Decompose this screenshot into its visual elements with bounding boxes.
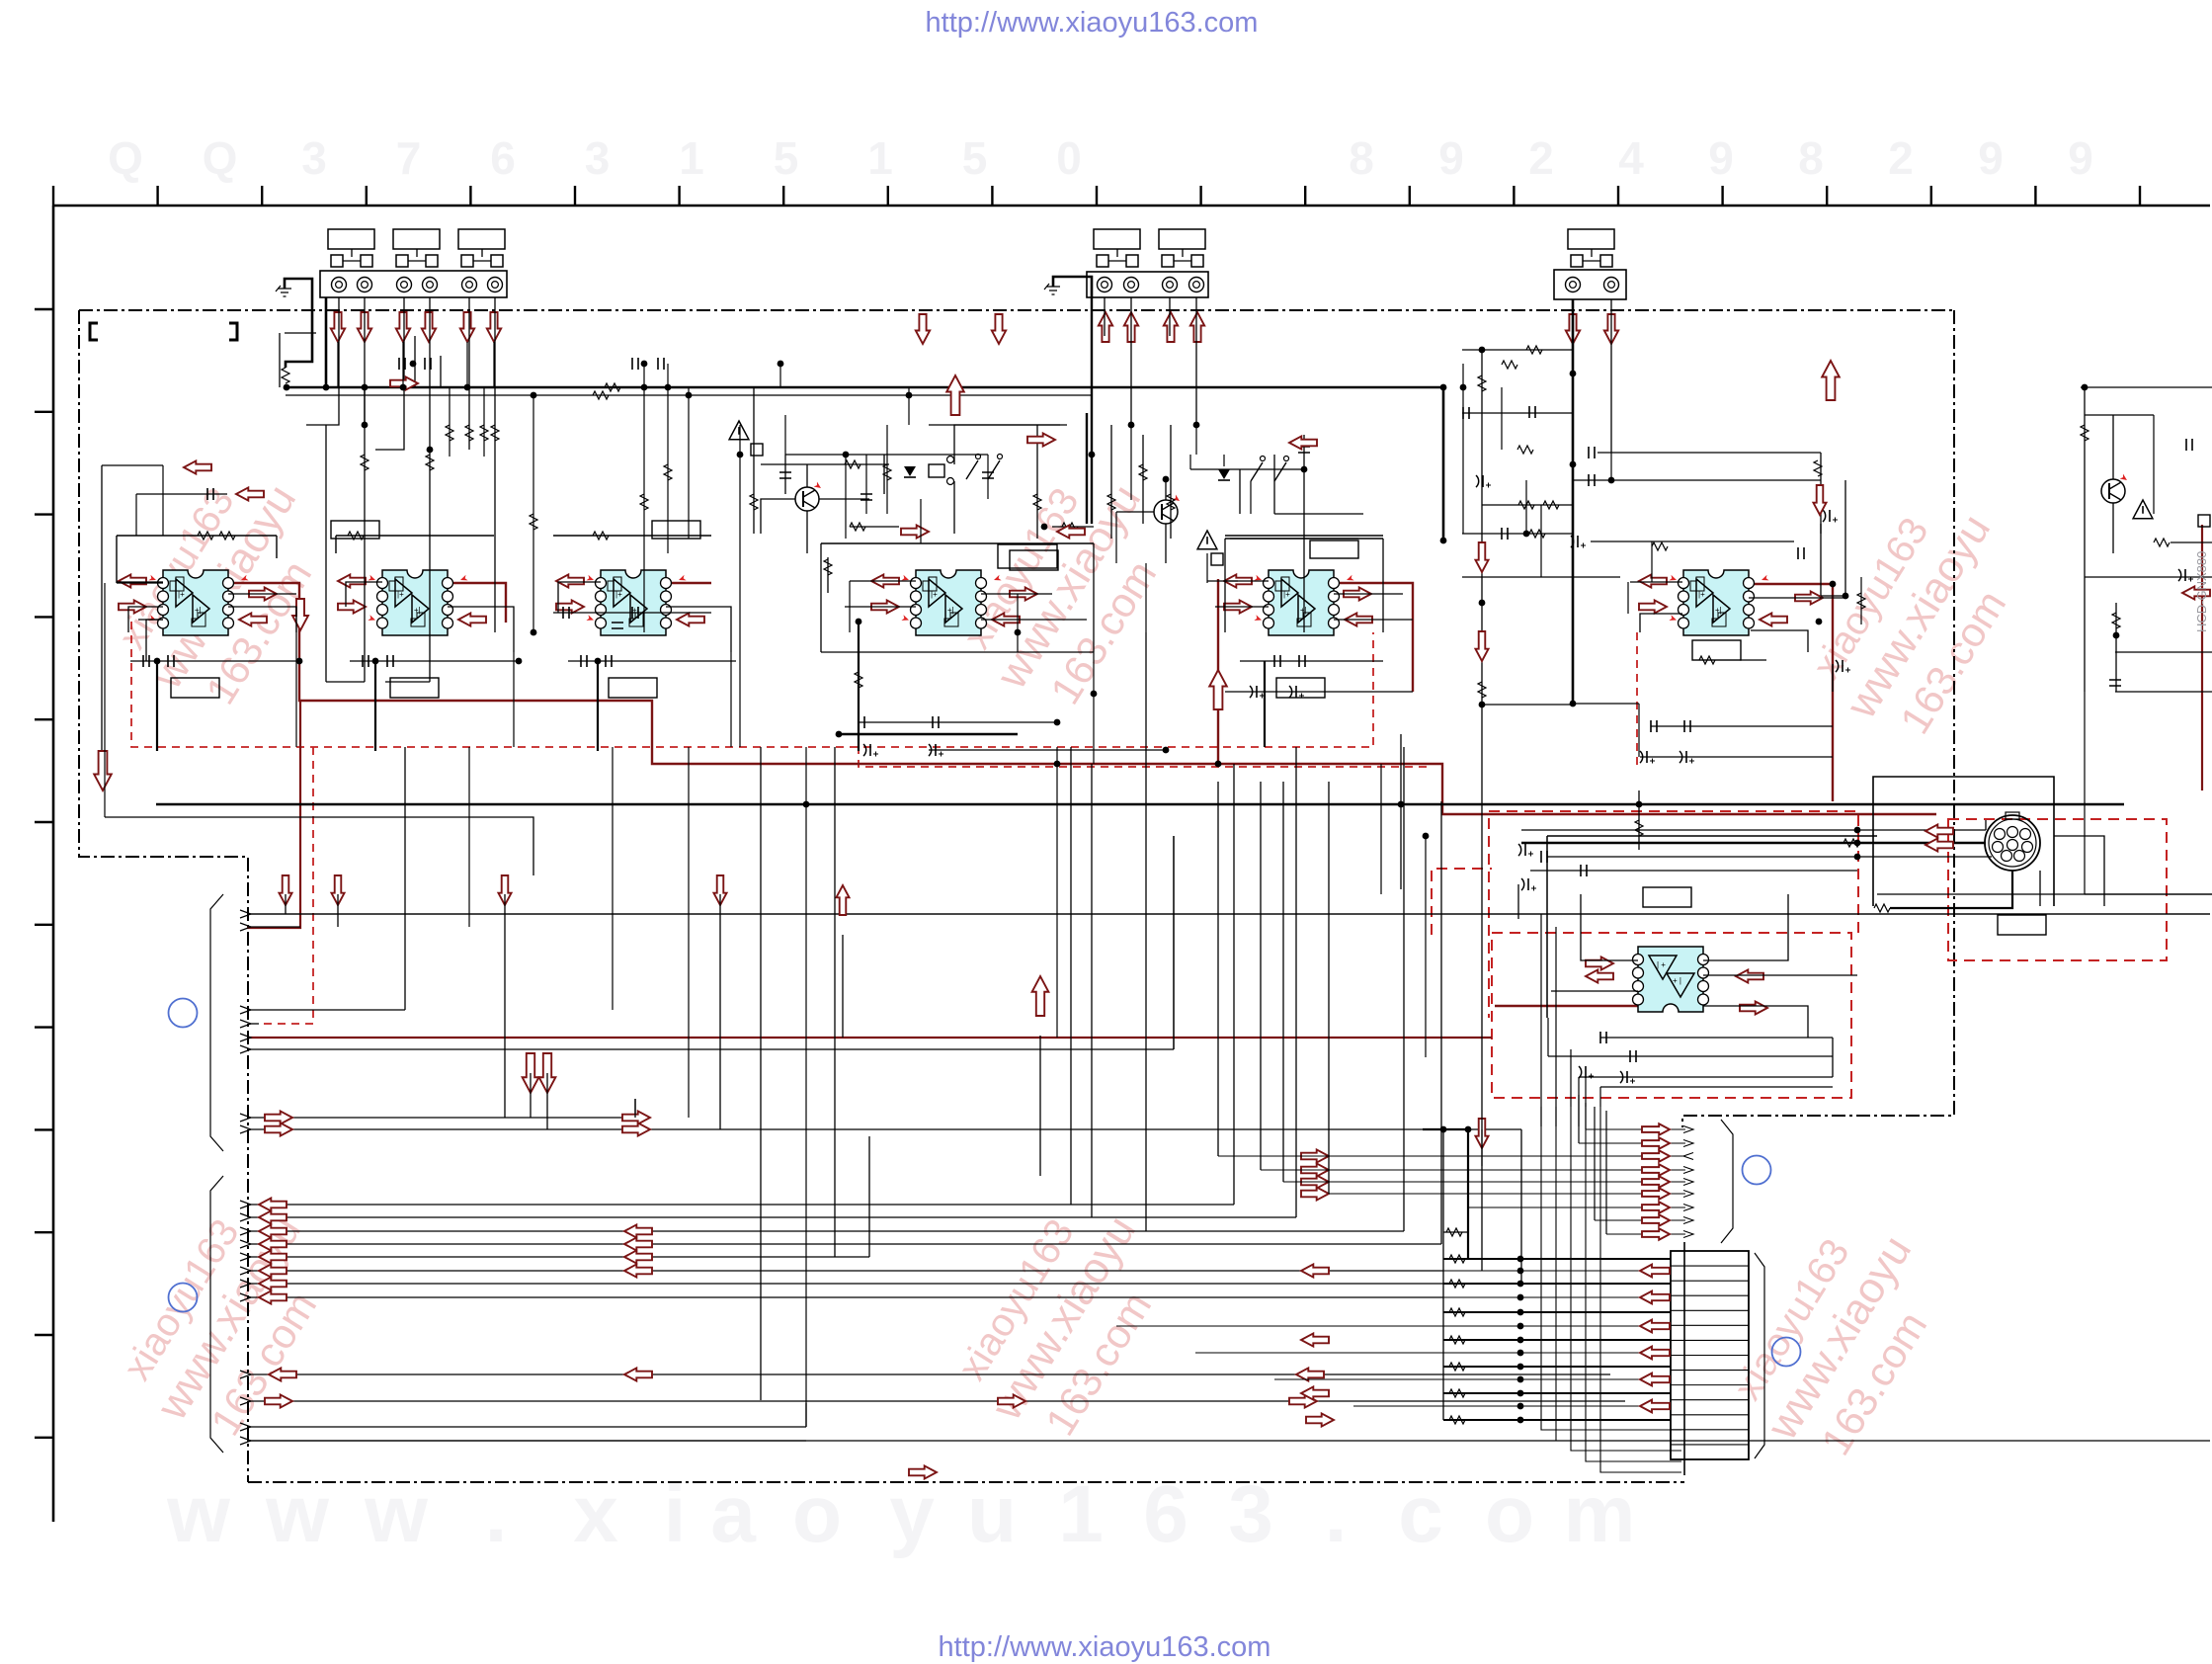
arrow left fanE [259, 1250, 287, 1263]
arrow left q2 [1289, 436, 1317, 449]
junction [1517, 1256, 1524, 1263]
wire [858, 622, 860, 751]
wire fan [240, 1006, 251, 1014]
arrow right pinfan [1642, 1150, 1670, 1162]
wire [1547, 856, 1992, 858]
connector CN9 pin [1671, 1370, 1749, 1372]
wire CN9 feed [1195, 1352, 1671, 1354]
junction [1440, 1126, 1447, 1133]
resistor CN9 row [1449, 1255, 1465, 1263]
resistor [1518, 501, 1534, 509]
wire [102, 464, 163, 466]
arrow down v3 [498, 875, 511, 905]
wire [1273, 455, 1275, 514]
wire [805, 747, 807, 1427]
wire vertical [719, 894, 721, 1129]
wire [839, 733, 1018, 735]
arrow left fanD2 [624, 1237, 652, 1250]
junction [1015, 629, 1022, 636]
wire [1482, 704, 1573, 706]
wire vertical [546, 1073, 548, 1129]
junction [1517, 1350, 1524, 1357]
junction [641, 361, 648, 368]
junction [803, 801, 810, 808]
wire [1832, 664, 1834, 692]
wire [156, 661, 158, 751]
wire [1225, 535, 1383, 537]
wire [1110, 425, 1112, 539]
svg-text:Q: Q [203, 132, 238, 184]
wire pinfan row [1606, 1233, 1685, 1235]
wire fan [240, 1423, 251, 1431]
wire CN9 feed [1274, 1378, 1671, 1380]
junction [1570, 371, 1577, 377]
svg-text:+|: +| [195, 606, 202, 615]
wire [2081, 386, 2212, 388]
arrow left U1 in [119, 574, 146, 587]
wire [667, 364, 669, 553]
brace left group 1 [210, 894, 223, 1151]
arrow down U1 right [292, 599, 308, 630]
wire CN9 thick vert [1467, 1129, 1469, 1259]
svg-text:3: 3 [301, 132, 327, 184]
arrow right U7 left [1586, 957, 1613, 969]
arrow right pinfan [1642, 1137, 1670, 1149]
wire [325, 425, 327, 682]
wire [2085, 576, 2212, 578]
wire [306, 297, 339, 425]
wire [2054, 836, 2104, 906]
junction [1440, 538, 1447, 544]
wire [116, 536, 118, 583]
wire [612, 747, 614, 1010]
wire fan [240, 1020, 251, 1028]
resistor CN9 row [1449, 1308, 1465, 1316]
junction [1523, 531, 1530, 538]
arrow left fanF [259, 1264, 287, 1277]
svg-text:4: 4 [1618, 132, 1644, 184]
wire [1599, 1087, 1601, 1107]
wire [1086, 413, 1088, 524]
wire fan [240, 1240, 251, 1248]
wire vertical [504, 894, 506, 1118]
arrow left right-edge [2182, 586, 2210, 599]
arrow left far-left [184, 460, 211, 473]
svg-text:http://www.xiaoyu163.com: http://www.xiaoyu163.com [926, 7, 1259, 39]
wire [1104, 297, 1106, 336]
wire [375, 297, 404, 450]
arrow right pinfan [1642, 1202, 1670, 1213]
wire [666, 607, 731, 652]
connector CN2 unit 1 label [1094, 229, 1140, 249]
wire CN9 staircase [1600, 1107, 1681, 1472]
arrow left fanA [259, 1198, 287, 1210]
wire [1223, 455, 1225, 466]
svg-text:9: 9 [1438, 132, 1464, 184]
junction [1301, 466, 1308, 473]
arrow right pinfan [1642, 1228, 1670, 1240]
ecap [1521, 878, 1524, 890]
connector CN3 jack 2 [1604, 278, 1619, 292]
wire U5 box left [1224, 539, 1226, 632]
arrow left U6 in [1639, 574, 1667, 587]
wire [784, 455, 786, 494]
ecap [929, 744, 932, 756]
capacitor [1581, 865, 1587, 876]
wire [513, 652, 515, 747]
value label CN8 label [1998, 915, 2046, 935]
wire vertical [1295, 747, 1297, 1217]
arrow right pinfan [1642, 1176, 1670, 1188]
wire [761, 463, 889, 465]
junction [362, 422, 369, 429]
wire vertical [1440, 801, 1442, 1244]
junction [1636, 801, 1643, 808]
wire [1844, 480, 1846, 596]
connector CN9 pin [1671, 1324, 1749, 1326]
capacitor [632, 607, 638, 619]
junction [1163, 747, 1170, 754]
wire CN9 res row top [1443, 1231, 1468, 1233]
capacitor [563, 607, 569, 619]
arrow down dbl2 [539, 1053, 556, 1093]
arrow left U5 in [1224, 574, 1252, 587]
circle ref D [1772, 1338, 1801, 1367]
wire [1093, 543, 1095, 652]
svg-text:|+: |+ [931, 590, 938, 599]
wire [1574, 479, 1821, 481]
relay K1 [929, 464, 944, 477]
svg-text:Q: Q [108, 132, 143, 184]
junction [1843, 593, 1849, 600]
junction [362, 384, 369, 391]
resistor [1635, 820, 1643, 836]
arrow right U1 in [119, 600, 146, 613]
junction [1517, 1294, 1524, 1301]
arrow left fanF2 [624, 1264, 652, 1277]
wire fan [240, 910, 251, 918]
red dashed audio path long [131, 622, 1373, 747]
capacitor [1274, 655, 1280, 667]
junction [410, 361, 417, 368]
wire [276, 536, 278, 558]
wire [1052, 526, 1094, 528]
arrow right U5 out [1344, 587, 1371, 600]
op-amp U7 [1638, 947, 1703, 1012]
value label U6 label [1692, 640, 1741, 660]
wire [845, 455, 847, 539]
wire [1703, 894, 1788, 960]
junction [641, 384, 648, 391]
junction [1570, 701, 1577, 707]
wire [468, 747, 470, 927]
wire [1640, 756, 1833, 758]
capacitor [1630, 1050, 1636, 1062]
dark red fan line 5 [247, 1037, 1492, 1039]
capacitor [581, 655, 587, 667]
arrow down cn mid [916, 314, 930, 344]
red dashed box amp U7 [1492, 933, 1851, 1098]
circle ref B [169, 1284, 198, 1312]
arrow right U4 out [1010, 587, 1037, 600]
wire [414, 336, 416, 387]
wire vertical [1520, 1129, 1522, 1284]
wire [821, 542, 1094, 544]
junction [1570, 461, 1577, 468]
bracket label left [90, 323, 237, 340]
connector CN1 jack 1 [332, 278, 347, 292]
wire [1380, 764, 1382, 894]
value label U7 label [1643, 887, 1691, 907]
arrow left CN9 row [1640, 1265, 1670, 1278]
dark red stub IC3 [665, 582, 711, 584]
wire [104, 583, 106, 817]
wire [2084, 692, 2086, 894]
value label U3 label [609, 678, 657, 698]
junction [531, 629, 537, 636]
wire fan [240, 1397, 251, 1405]
wire vertical [337, 894, 339, 927]
wire pinfan riser2 [1578, 1095, 1580, 1143]
wire [553, 535, 711, 537]
wire [101, 465, 103, 761]
arrow down CN1 pin 1 [331, 312, 345, 342]
arrow right fan12 [265, 1394, 292, 1407]
ecap [1571, 536, 1574, 547]
junction [1517, 1281, 1524, 1288]
wire [2115, 651, 2212, 653]
capacitor [658, 358, 664, 370]
value label right1 [1310, 541, 1358, 558]
red dashed audio path branch [258, 747, 313, 1024]
wire [779, 364, 781, 387]
wire [1630, 581, 1682, 583]
wire [336, 535, 494, 537]
arrow right pinfan [1642, 1214, 1670, 1226]
wire [1189, 455, 1191, 469]
junction [595, 658, 602, 665]
wire [402, 342, 404, 387]
capacitor [387, 655, 393, 667]
transistor Q2 [1154, 500, 1178, 524]
connector CN9 pin [1671, 1309, 1749, 1311]
wire vertical [1145, 632, 1147, 1231]
svg-text:|+: |+ [1283, 590, 1290, 599]
arrow left CN9 row [1640, 1291, 1670, 1304]
arrow right g2r1 [1301, 1149, 1329, 1162]
wire vertical [1403, 747, 1405, 1231]
arrow left fan11c [1296, 1368, 1324, 1380]
junction [1398, 801, 1405, 808]
junction [1091, 691, 1098, 698]
capacitor [168, 655, 174, 667]
svg-text:+ |: + | [1673, 976, 1681, 985]
wire [466, 342, 468, 387]
wire fan [240, 923, 251, 931]
resistor [1167, 494, 1175, 510]
arrow left fanC [259, 1224, 287, 1237]
dark red stub IC5 [1334, 583, 1413, 692]
ecap [1679, 751, 1682, 763]
junction [836, 731, 843, 738]
wire [785, 454, 988, 456]
arrow down v7 [1475, 1119, 1488, 1148]
wire [929, 424, 1067, 426]
wire [1165, 524, 1167, 563]
wire [558, 582, 601, 613]
arrow right U6 out [1795, 591, 1823, 604]
wire pinfan riser8 [1594, 1107, 1596, 1220]
wire vertical [760, 747, 762, 1400]
arrow right mid-b1 [909, 1465, 937, 1478]
capacitor [779, 472, 791, 478]
arrow up CN2 pin 4 [1190, 312, 1204, 342]
arrow right g2r3 [1301, 1175, 1329, 1188]
arrow left U4 out [992, 613, 1020, 625]
wire [987, 455, 989, 499]
red dashed box far right [1948, 819, 2167, 960]
connector CN1 unit 2 label [393, 229, 440, 249]
resistor [1652, 542, 1668, 550]
arrow left fanD [259, 1237, 287, 1250]
wire [1264, 661, 1266, 747]
dark red right edge [2201, 525, 2203, 790]
junction [1517, 1364, 1524, 1371]
arrow down CN1 pin 5 [460, 312, 474, 342]
resistor [850, 523, 865, 531]
wire [1462, 576, 1620, 578]
wire [1555, 927, 1557, 1126]
resistor [664, 464, 672, 480]
wire [1250, 481, 1252, 514]
wire [1142, 435, 1144, 524]
resistor [426, 455, 434, 470]
red dashed box outer right [1432, 869, 1492, 935]
op-amp U6 [1683, 570, 1749, 635]
wire [117, 582, 163, 584]
wire [135, 494, 137, 536]
junction [686, 392, 693, 399]
arrow left fanB [259, 1210, 287, 1223]
connector CN2 unit 2 label [1159, 229, 1205, 249]
arrow left U3 out [677, 613, 704, 625]
wire vertical [1233, 764, 1235, 1205]
ecap [1836, 660, 1839, 672]
wire [1627, 582, 1629, 614]
junction [1517, 1403, 1524, 1410]
resistor [1857, 593, 1865, 609]
arrow down right-cap [1813, 485, 1826, 515]
connector CN1 jack 6 [488, 278, 503, 292]
arrow left U3 in [556, 574, 584, 587]
resistor [593, 532, 609, 540]
resistor [491, 425, 499, 441]
resistor [361, 455, 369, 470]
wire fan up2 [1173, 836, 1175, 1049]
arrow down dbl1 [523, 1053, 539, 1093]
junction [1479, 702, 1486, 708]
svg-text:9: 9 [1978, 132, 2004, 184]
fuse box 2 [1211, 553, 1223, 565]
wire [279, 333, 281, 387]
wire CN9 feed [1443, 1283, 1671, 1285]
wire [953, 481, 955, 534]
junction [843, 452, 850, 458]
wire [448, 607, 514, 652]
wire [346, 582, 382, 607]
wire vertical [1481, 757, 1483, 1271]
wire pinfan row [1468, 1206, 1685, 1208]
wire vertical [1217, 782, 1219, 1156]
dark red fan line 2 [247, 701, 300, 928]
wire fan [240, 1201, 251, 1208]
wire [1610, 453, 1612, 480]
wire [117, 535, 277, 537]
arrow right q2 [1027, 433, 1055, 446]
fuse box 1 [751, 444, 763, 456]
junction [1830, 581, 1837, 588]
frame dash-dot left edge [79, 310, 248, 1482]
wire vertical [530, 1073, 532, 1118]
ecap [1823, 510, 1826, 522]
wire [1215, 606, 1269, 608]
wire vertical [1091, 764, 1093, 1217]
capacitor [632, 358, 638, 370]
wire [1547, 1018, 1549, 1056]
value label mid1 [331, 521, 379, 539]
wire [1570, 1049, 1572, 1107]
resistor [593, 391, 609, 399]
connector group CN3 box [1554, 270, 1626, 299]
arrow down CN1 pin 6 [487, 312, 501, 342]
arrow right U2 in [338, 600, 366, 613]
capacitor [1541, 851, 1547, 863]
wire [247, 913, 2210, 915]
wire fan [240, 1371, 251, 1378]
resistor [1478, 682, 1486, 698]
arrow right mid-top [901, 525, 929, 538]
wire [1703, 1006, 1808, 1038]
red dashed branch IC5 [859, 622, 1432, 767]
capacitor [399, 358, 405, 370]
capacitor [1798, 547, 1804, 559]
wire fan [240, 1227, 251, 1235]
resistor CN9 row [1449, 1363, 1465, 1371]
svg-text:3: 3 [585, 132, 611, 184]
junction [1517, 1390, 1524, 1397]
arrow left fanH [259, 1290, 287, 1303]
arrow right fan2b [622, 1123, 650, 1135]
arrow down cn mid2 [992, 314, 1006, 344]
wire vertical [1282, 782, 1284, 1182]
arrow right pinfan [1642, 1188, 1670, 1200]
op-amp U5 [1269, 570, 1334, 635]
arrow right pinfan [1642, 1123, 1670, 1135]
wire [533, 395, 534, 632]
svg-text:9: 9 [2068, 132, 2093, 184]
red dashed vertical IC5b [1636, 632, 1638, 767]
arrow left fanG [259, 1277, 287, 1290]
svg-text:8: 8 [1798, 132, 1824, 184]
dark red bus main [228, 583, 1218, 764]
svg-text:|+: |+ [178, 590, 185, 599]
wire [753, 387, 755, 458]
frame dash-dot right edge [1682, 310, 1954, 1127]
wire [920, 499, 922, 543]
connector CN3 jack 1 [1566, 278, 1581, 292]
resistor [1517, 446, 1533, 454]
arrow down CN1 pin 2 [358, 312, 371, 342]
